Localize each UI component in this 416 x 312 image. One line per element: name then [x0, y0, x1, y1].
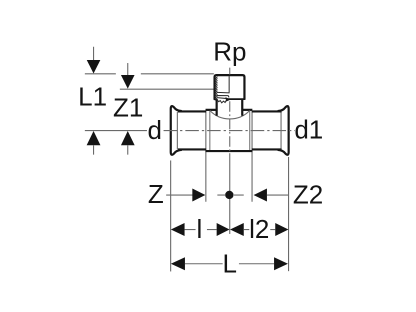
break-out wedge — [225, 97, 230, 101]
arrow Z2 (left) — [254, 189, 267, 202]
body top edge left section — [178, 110, 206, 112]
dimension L line right part — [239, 263, 274, 265]
vertical centerline through body (dash-dot) — [229, 101, 231, 152]
press collar left inner line — [176, 112, 178, 149]
svg-text:Z: Z — [148, 179, 164, 209]
svg-text:l: l — [197, 214, 203, 244]
arrow l left — [171, 223, 185, 236]
svg-text:Z1: Z1 — [113, 93, 143, 123]
body bottom edge middle section — [206, 150, 253, 152]
socket bottom step right — [227, 98, 245, 100]
svg-text:d: d — [147, 115, 161, 145]
dimension L line left part — [185, 263, 223, 265]
center dot stub right — [234, 194, 244, 196]
centerline extension left of d — [85, 130, 147, 132]
dimension l2 line left part — [244, 229, 250, 231]
center dot stub left — [217, 194, 225, 196]
arrow L1 bottom (up) — [87, 131, 101, 155]
threaded socket outline — [215, 75, 245, 99]
arrow Z1 bottom (up) — [121, 131, 135, 155]
vertical centerline above socket — [229, 68, 231, 75]
thread end line B — [217, 96, 229, 98]
dimension line Z1 (thread shoulder level) — [120, 88, 214, 90]
break-out jagged line — [217, 99, 227, 102]
dimension l line left part — [185, 229, 196, 231]
body bottom edge left section — [178, 148, 206, 150]
thread end line A — [217, 91, 230, 94]
arrow l2 left — [230, 223, 244, 236]
dimension l line right part — [207, 229, 217, 231]
body top edge middle left — [206, 109, 217, 111]
horizontal centerline through fitting (dash-dot) — [164, 130, 295, 132]
branch neck wall right — [241, 99, 243, 116]
thread bore line — [228, 76, 230, 92]
thread hatch band — [215, 77, 218, 101]
press collar right inner line — [280, 112, 282, 149]
body bottom edge right section — [252, 148, 282, 150]
svg-text:Rp: Rp — [213, 36, 246, 66]
svg-text:Z2: Z2 — [293, 180, 323, 210]
arrow Z (right) — [192, 189, 205, 202]
dimension line L1 (top of branch level) — [85, 73, 214, 75]
arrow l right — [217, 223, 230, 236]
extension line right shoulder (E4) — [251, 111, 253, 202]
dimension Z2 line — [267, 194, 289, 196]
branch bore projection line left — [209, 111, 211, 151]
svg-text:L1: L1 — [78, 82, 107, 112]
svg-text:l2: l2 — [249, 214, 269, 244]
arrow L right — [274, 257, 288, 270]
body top edge middle right — [242, 109, 253, 111]
branch bore projection line right — [249, 111, 251, 151]
thread end line C — [217, 97, 227, 100]
body top edge right section — [252, 110, 282, 112]
press collar right — [278, 106, 289, 155]
center dot — [225, 191, 233, 199]
dimension l2 line right part — [270, 229, 275, 231]
extension line left shoulder (E2) — [205, 111, 207, 202]
svg-text:L: L — [222, 248, 236, 278]
dimension Z line — [166, 194, 193, 196]
arrow l2 right — [275, 223, 288, 236]
arrow L left — [171, 257, 185, 270]
svg-text:d1: d1 — [294, 114, 323, 144]
socket bottom step left — [214, 98, 216, 100]
extension line center (E3) — [229, 153, 231, 234]
extension line right end of fitting (E5) — [288, 157, 290, 271]
branch neck wall left — [216, 99, 218, 116]
crotch arc under branch — [210, 110, 250, 118]
arrow L1 top (down) — [87, 47, 101, 74]
arrow Z1 top (down) — [121, 63, 135, 89]
press collar left — [171, 106, 182, 155]
extension line left end of fitting (E1) — [170, 160, 172, 271]
